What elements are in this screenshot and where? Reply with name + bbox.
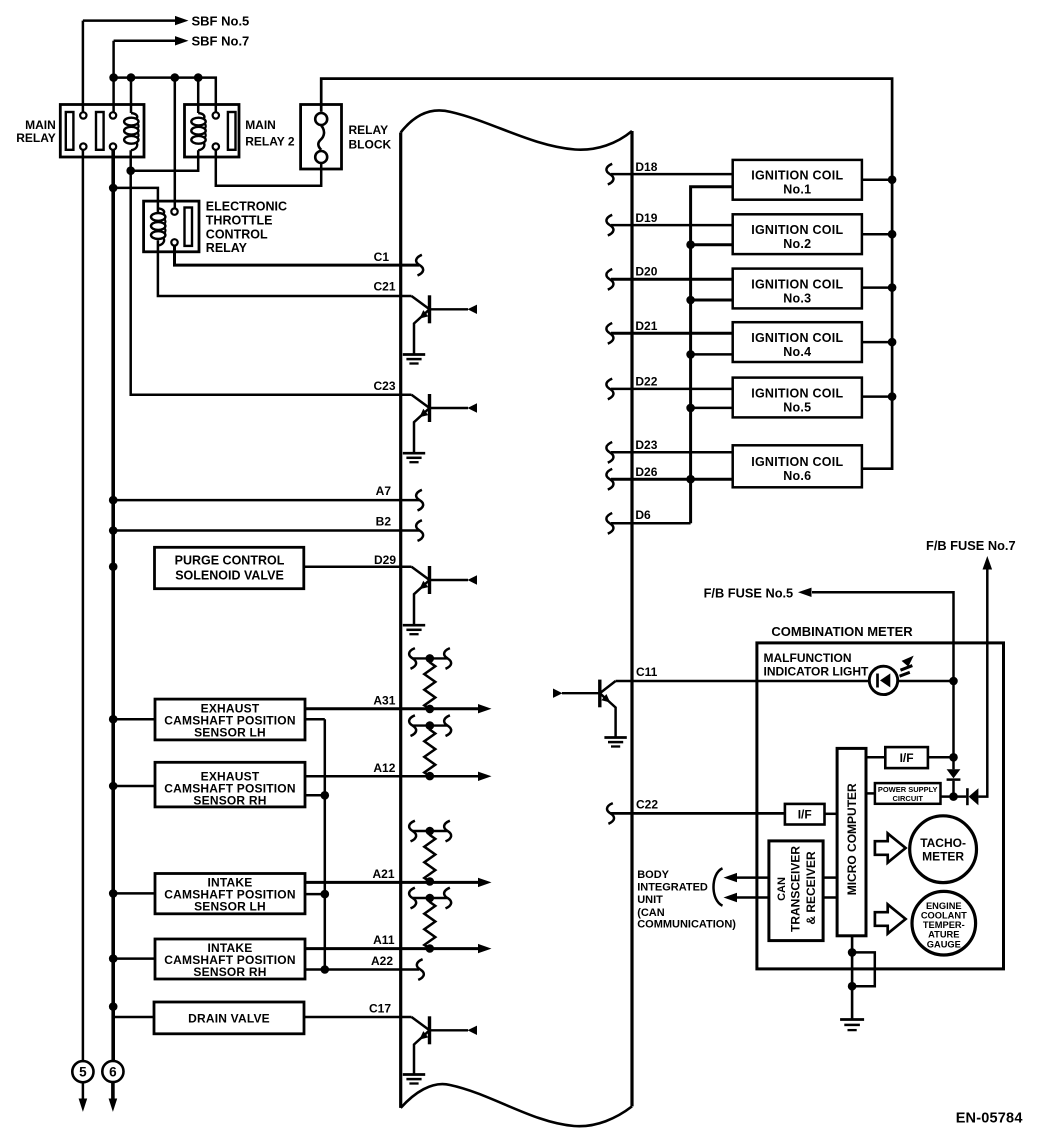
svg-text:C23: C23 bbox=[373, 379, 395, 393]
svg-text:COMBINATION METER: COMBINATION METER bbox=[771, 624, 913, 639]
svg-text:D20: D20 bbox=[635, 264, 657, 278]
svg-text:C22: C22 bbox=[636, 798, 658, 812]
svg-text:D6: D6 bbox=[635, 508, 651, 522]
svg-text:(CAN: (CAN bbox=[637, 907, 665, 919]
svg-text:D19: D19 bbox=[635, 211, 657, 225]
svg-text:RELAY: RELAY bbox=[349, 123, 389, 137]
svg-text:IGNITION COIL: IGNITION COIL bbox=[751, 223, 843, 237]
svg-text:D29: D29 bbox=[374, 553, 396, 567]
svg-text:TEMPER-: TEMPER- bbox=[923, 920, 965, 930]
svg-text:F/B FUSE No.5: F/B FUSE No.5 bbox=[704, 585, 794, 600]
svg-text:I/F: I/F bbox=[900, 751, 914, 765]
svg-text:SBF No.5: SBF No.5 bbox=[192, 13, 250, 28]
svg-text:RELAY 2: RELAY 2 bbox=[245, 135, 295, 149]
svg-text:D22: D22 bbox=[635, 375, 657, 389]
svg-text:No.2: No.2 bbox=[783, 237, 811, 251]
svg-text:SENSOR LH: SENSOR LH bbox=[194, 725, 266, 739]
svg-text:INDICATOR LIGHT: INDICATOR LIGHT bbox=[764, 665, 870, 679]
svg-text:SENSOR RH: SENSOR RH bbox=[193, 965, 266, 979]
svg-text:D23: D23 bbox=[635, 438, 657, 452]
svg-text:INTEGRATED: INTEGRATED bbox=[637, 882, 708, 894]
svg-text:EN-05784: EN-05784 bbox=[956, 1111, 1023, 1127]
svg-text:ELECTRONIC: ELECTRONIC bbox=[206, 200, 287, 214]
svg-text:IGNITION COIL: IGNITION COIL bbox=[751, 169, 843, 183]
svg-text:A11: A11 bbox=[373, 933, 395, 947]
svg-text:C17: C17 bbox=[369, 1002, 391, 1016]
svg-text:F/B FUSE No.7: F/B FUSE No.7 bbox=[926, 538, 1016, 553]
svg-text:No.5: No.5 bbox=[783, 400, 811, 414]
svg-text:THROTTLE: THROTTLE bbox=[206, 214, 273, 228]
svg-text:BODY: BODY bbox=[637, 869, 669, 881]
svg-text:COOLANT: COOLANT bbox=[921, 911, 967, 921]
svg-text:METER: METER bbox=[922, 849, 964, 863]
svg-text:CAN: CAN bbox=[776, 877, 788, 901]
svg-text:POWER SUPPLY: POWER SUPPLY bbox=[878, 785, 938, 794]
svg-text:A22: A22 bbox=[371, 954, 393, 968]
svg-text:MAIN: MAIN bbox=[245, 118, 276, 132]
svg-text:A21: A21 bbox=[372, 867, 394, 881]
svg-text:D26: D26 bbox=[635, 465, 657, 479]
svg-text:IGNITION COIL: IGNITION COIL bbox=[751, 277, 843, 291]
svg-text:TRANSCEIVER: TRANSCEIVER bbox=[788, 846, 802, 932]
svg-text:IGNITION COIL: IGNITION COIL bbox=[751, 386, 843, 400]
svg-text:MALFUNCTION: MALFUNCTION bbox=[764, 651, 852, 665]
svg-text:SENSOR LH: SENSOR LH bbox=[194, 900, 266, 914]
svg-text:IGNITION COIL: IGNITION COIL bbox=[751, 331, 843, 345]
svg-text:RELAY: RELAY bbox=[16, 131, 56, 145]
svg-text:A7: A7 bbox=[376, 484, 392, 498]
svg-text:A31: A31 bbox=[373, 693, 395, 707]
svg-text:IGNITION COIL: IGNITION COIL bbox=[751, 455, 843, 469]
svg-text:D21: D21 bbox=[635, 319, 657, 333]
svg-text:COMMUNICATION): COMMUNICATION) bbox=[637, 919, 736, 931]
svg-text:No.4: No.4 bbox=[783, 345, 811, 359]
svg-text:CONTROL: CONTROL bbox=[206, 227, 268, 241]
svg-text:C11: C11 bbox=[636, 665, 658, 679]
svg-text:6: 6 bbox=[109, 1065, 117, 1080]
svg-text:SOLENOID VALVE: SOLENOID VALVE bbox=[175, 569, 284, 583]
svg-text:No.6: No.6 bbox=[783, 469, 811, 483]
svg-text:C21: C21 bbox=[373, 280, 395, 294]
svg-text:No.1: No.1 bbox=[783, 183, 811, 197]
svg-text:BLOCK: BLOCK bbox=[349, 137, 392, 151]
svg-text:D18: D18 bbox=[635, 160, 657, 174]
svg-text:I/F: I/F bbox=[798, 808, 812, 822]
svg-text:CIRCUIT: CIRCUIT bbox=[892, 794, 923, 803]
svg-text:TACHO-: TACHO- bbox=[920, 836, 966, 850]
svg-text:GAUGE: GAUGE bbox=[927, 939, 961, 949]
svg-text:C1: C1 bbox=[374, 250, 390, 264]
svg-text:ENGINE: ENGINE bbox=[926, 901, 962, 911]
svg-text:RELAY: RELAY bbox=[206, 241, 248, 255]
svg-text:No.3: No.3 bbox=[783, 291, 811, 305]
svg-text:SBF No.7: SBF No.7 bbox=[192, 34, 250, 49]
svg-text:MICRO COMPUTER: MICRO COMPUTER bbox=[845, 783, 859, 895]
svg-text:A12: A12 bbox=[373, 761, 395, 775]
svg-text:DRAIN VALVE: DRAIN VALVE bbox=[188, 1012, 270, 1026]
svg-text:SENSOR RH: SENSOR RH bbox=[193, 793, 266, 807]
svg-text:PURGE CONTROL: PURGE CONTROL bbox=[175, 554, 285, 568]
svg-text:UNIT: UNIT bbox=[637, 894, 663, 906]
svg-text:B2: B2 bbox=[376, 515, 392, 529]
svg-text:& RECEIVER: & RECEIVER bbox=[804, 851, 818, 925]
svg-text:ATURE: ATURE bbox=[928, 930, 959, 940]
svg-text:5: 5 bbox=[79, 1065, 87, 1080]
